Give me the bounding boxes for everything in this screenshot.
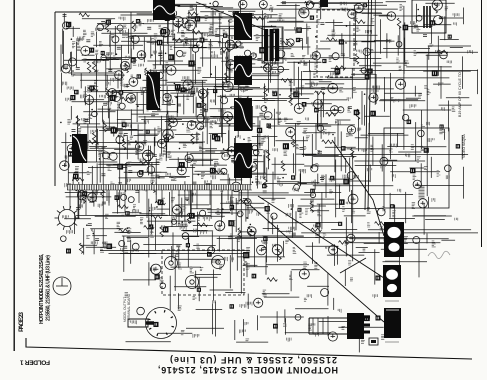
svg-text:21S560, 21S561 & UHF (U3 Line): 21S560, 21S561 & UHF (U3 Line) xyxy=(170,355,337,365)
svg-text:B19 AMP OF 60 CYCLE TO: B19 AMP OF 60 CYCLE TO xyxy=(458,72,462,117)
svg-text:FOLDER 1: FOLDER 1 xyxy=(20,359,50,366)
svg-text:PAGE 23: PAGE 23 xyxy=(18,312,25,332)
svg-text:HOTPOINT MODELS 21S415, 21S416: HOTPOINT MODELS 21S415, 21S416, xyxy=(39,253,45,324)
svg-text:VIDEO 6AQ5A: VIDEO 6AQ5A xyxy=(462,134,466,158)
svg-text:21S560, 21S561 & UHF (U3 Line): 21S560, 21S561 & UHF (U3 Line) xyxy=(46,255,52,321)
svg-text:TERMINAL BOARD: TERMINAL BOARD xyxy=(127,293,131,322)
svg-text:HOTPOINT MODELS 21S415, 21S416: HOTPOINT MODELS 21S415, 21S416, xyxy=(158,365,338,375)
